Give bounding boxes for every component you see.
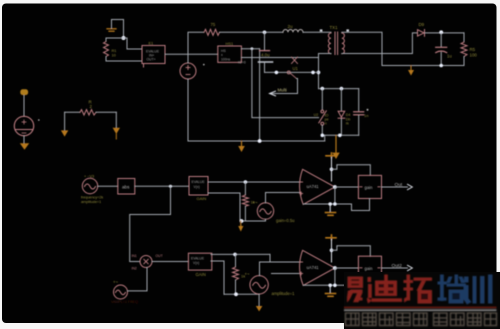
svg-text:D9: D9: [419, 22, 425, 27]
ground G3 (snubber): [335, 135, 337, 152]
svg-text:amplitude=1: amplitude=1: [272, 291, 296, 296]
multiplier M1: [140, 256, 152, 268]
wire upper loop to box4: [332, 246, 371, 256]
node J11: [258, 139, 262, 143]
transformer phase dot right: [346, 29, 349, 31]
box GAIN2: [358, 256, 381, 279]
VEE bar OP1: [329, 204, 331, 212]
svg-text:EVALUE: EVALUE: [191, 256, 205, 260]
label C3: [367, 109, 369, 111]
svg-text:+~: +~: [245, 272, 250, 277]
capacitor C3 (vertical): [358, 89, 360, 112]
wire op2 out to box4: [335, 267, 359, 269]
svg-text:uA741: uA741: [307, 265, 320, 270]
transformer phase dot left: [320, 29, 323, 31]
label R5: [470, 47, 478, 58]
wire E1 out to HS1 box: [165, 53, 218, 55]
node J6: [439, 64, 443, 68]
voltage source V1 (circle with +/-): [180, 63, 196, 79]
wire HS1 out pin2 to primary bottom node: [241, 57, 318, 59]
svg-text:Multi: Multi: [278, 88, 287, 93]
ground G8 (row1): [240, 221, 242, 226]
node J10b: [338, 134, 342, 138]
svg-text:100: 100: [470, 53, 478, 58]
port Multi: [270, 91, 276, 96]
node J7: [275, 71, 279, 75]
E1 box inner text: [146, 49, 160, 61]
switch U1 (tClose): [287, 57, 297, 79]
resistor R1 (vertical zigzag): [104, 42, 109, 57]
wire V6 to multiplier: [128, 268, 148, 291]
wire R1 bottom to E1 in-: [106, 57, 142, 62]
source V3 (sine): [82, 178, 97, 193]
resistor R4 (vertical): [235, 254, 237, 267]
wire secondary top to ground rail: [342, 32, 382, 65]
box ABS1: [118, 179, 135, 195]
wire box3 bottom pin to left loop: [211, 261, 224, 294]
VCC bar OP2: [326, 235, 336, 240]
node J12: [169, 185, 172, 188]
node J9b: [340, 87, 344, 91]
wire feedback row2: [303, 268, 335, 285]
wire rail row1: [240, 220, 266, 222]
wire lower loop box2: [352, 199, 370, 211]
box E3: [189, 177, 208, 196]
source V6 (sine, bottom left): [114, 285, 128, 299]
labels D2: [346, 113, 351, 126]
capacitor C2 branch from top rail: [264, 32, 266, 50]
ground G1 (top left, bar style): [107, 29, 116, 31]
wire V1 top to top rail: [188, 32, 204, 63]
wire ground G1 to node J1: [112, 20, 124, 39]
snubber top rail: [319, 88, 359, 90]
svg-text:n: n: [325, 122, 327, 126]
node J19: [233, 253, 237, 257]
wire control (vertical 1) to snubber switch: [252, 49, 319, 118]
svg-text:100ns: 100ns: [221, 57, 231, 61]
port Out: [408, 184, 413, 189]
capacitor C4 (output, polarized): [440, 33, 442, 47]
node J8: [311, 71, 315, 75]
watermark char yi (red): [347, 277, 363, 303]
svg-text:rk: rk: [346, 122, 349, 126]
svg-text:abs: abs: [122, 184, 130, 189]
tiny node mark right of V1: [203, 64, 205, 66]
VEE bar OP2: [329, 285, 331, 292]
svg-text:Out: Out: [395, 182, 403, 188]
watermark gray underline: [344, 310, 497, 312]
wire E3 top out to minus line: [208, 181, 301, 183]
svg-text:V(x): V(x): [194, 185, 200, 189]
wire primary bottom lead: [319, 53, 332, 55]
labels V3 params: [81, 196, 103, 205]
wire M1 out to box3: [152, 261, 188, 263]
node J23b: [333, 284, 337, 288]
wire VCC to V2: [23, 96, 25, 117]
ground G2 (output, arrow): [410, 66, 412, 71]
E-source box E1: [142, 46, 165, 64]
svg-text:R5: R5: [470, 47, 476, 52]
switch U2 (vertical): [321, 89, 323, 110]
resistor R75 (horizontal zigzag): [204, 29, 220, 35]
svg-text:uA741: uA741: [307, 184, 320, 189]
node J10a: [321, 134, 325, 138]
svg-text:HS1: HS1: [226, 41, 235, 46]
HS1 inner text: [221, 49, 231, 61]
rail row2: [224, 293, 259, 295]
node J1 junction: [122, 36, 126, 40]
watermark char xun (blue): [464, 275, 493, 305]
node J13: [244, 180, 248, 184]
wire jog to op2 minus line: [260, 254, 271, 262]
diode D1: [418, 30, 425, 37]
ground G9: [256, 306, 263, 311]
svg-text:+~: +~: [113, 280, 118, 285]
op-amp OP2 (uA741): [300, 250, 335, 285]
svg-text:GAIN: GAIN: [196, 272, 206, 277]
wire primary bottom vertical: [318, 54, 320, 89]
wire D1 to output: [425, 32, 464, 34]
wire V2 bottom: [23, 136, 25, 144]
wire plus line row2: [272, 273, 302, 275]
label R2: [89, 100, 93, 109]
ground G5: [20, 143, 29, 150]
watermark line2 : shepin-he-tianxian-sheji-zhuanjia (fake glyph blocks): [346, 313, 497, 326]
node J9a: [321, 87, 325, 91]
box HS1: [218, 46, 242, 62]
wire secondary bottom to diode: [342, 33, 417, 54]
watermark char di (red): [367, 275, 402, 304]
svg-text:D4: D4: [346, 113, 351, 117]
node J21: [330, 249, 334, 253]
svg-text:Out2: Out2: [392, 263, 403, 269]
svg-text:1n: 1n: [364, 113, 368, 118]
node J5: [439, 30, 443, 34]
snubber bottom rail: [322, 134, 358, 136]
wire branch down to multiplier: [130, 186, 171, 261]
svg-text:V(x): V(x): [193, 261, 199, 265]
wire box2 out: [382, 186, 408, 188]
wire switch to Multi port: [270, 79, 298, 94]
svg-text:EVALUE: EVALUE: [192, 180, 206, 184]
port Out2: [408, 265, 413, 270]
svg-text:VAMPL=1 FREQ: VAMPL=1 FREQ: [111, 300, 138, 304]
svg-text:OUT+: OUT+: [147, 57, 156, 61]
node J18b: [333, 202, 337, 206]
node J2: [251, 47, 254, 50]
node J3: [317, 71, 321, 75]
svg-text:amplitude=1: amplitude=1: [81, 200, 101, 204]
wire VCC stub: [331, 158, 333, 182]
svg-text:U1: U1: [293, 66, 299, 71]
wire box3 top out: [211, 253, 270, 255]
wire lower loop box4: [352, 279, 370, 292]
node J16: [330, 168, 334, 172]
wire VCC stub OP2: [331, 240, 333, 263]
wire rail jog: [324, 135, 326, 141]
VCC bar OP1: [326, 153, 336, 158]
wire V3 to abs: [98, 185, 118, 187]
wire main bottom rail: [188, 79, 325, 141]
ground G7 (right): [115, 112, 117, 128]
ground G6 (left): [64, 112, 66, 130]
svg-text:frequency=2k: frequency=2k: [81, 196, 103, 200]
svg-text:4.0u: 4.0u: [261, 53, 270, 58]
svg-text:1u: 1u: [447, 54, 452, 59]
wire J1 to resistor R1 top: [106, 37, 124, 39]
node J20: [234, 292, 238, 296]
watermark char tuo (red): [404, 275, 433, 304]
label R1 value: [112, 48, 117, 57]
labels U2: [314, 113, 329, 126]
source V4 (sine with marks): [257, 203, 273, 219]
svg-text:IN2: IN2: [132, 266, 137, 270]
source V5 (sine): [250, 276, 268, 294]
plus line: [266, 192, 302, 194]
svg-text:gain=0.5u: gain=0.5u: [276, 218, 295, 223]
wire box4 out: [382, 267, 408, 269]
wire return (vertical 2) HS1 to bottom rail: [259, 49, 261, 141]
watermark red underline: [344, 307, 497, 309]
wire E3 bottom pin down: [208, 193, 240, 221]
svg-text:gain: gain: [365, 266, 374, 271]
resistor R5 (output, vertical): [463, 33, 465, 42]
diode D2 (vertical): [340, 89, 342, 111]
svg-text:IC=0: IC=0: [238, 61, 246, 65]
inductor L1: [283, 30, 303, 33]
svg-text:IN1: IN1: [132, 254, 137, 258]
box E2: [188, 253, 211, 270]
node J22 (output tip): [333, 266, 337, 270]
svg-text:GAIN: GAIN: [197, 196, 207, 201]
ground G4 (main rail): [241, 141, 243, 146]
svg-text:U2: U2: [314, 113, 319, 117]
svg-text:+ ~V3: + ~V3: [84, 175, 94, 179]
wire output ground rail: [382, 65, 464, 67]
svg-text:+~: +~: [253, 200, 258, 205]
watermark backdrop block: [344, 272, 500, 329]
svg-text:TX1: TX1: [330, 25, 339, 30]
wire L1 to transformer: [303, 31, 331, 33]
node J23a: [328, 284, 332, 288]
svg-text:75: 75: [211, 22, 216, 27]
watermark char pei (blue): [438, 275, 467, 304]
VCC bubble: [20, 89, 28, 95]
resistor R3 (feedback, vertical): [244, 182, 246, 195]
svg-text:gain: gain: [365, 185, 374, 190]
wire V5 bottom to ground: [258, 294, 260, 306]
wire op1 out to box2: [335, 186, 359, 188]
svg-text:OUT: OUT: [156, 254, 163, 258]
box GAIN1: [358, 175, 381, 198]
wire feedback row1: [303, 187, 335, 204]
node J17 (output tip): [333, 185, 337, 189]
wire J1 to E1 in+: [124, 38, 143, 49]
node J14: [240, 219, 244, 223]
source V2 (circle): [14, 116, 33, 135]
resistor R2 between grounds: [65, 111, 80, 113]
svg-text:E1: E1: [149, 41, 155, 46]
wire abs out: [135, 185, 189, 187]
tiny node mark right of V2: [38, 119, 40, 121]
wire R75 to L1: [220, 31, 284, 33]
transformer TX1: [328, 32, 344, 55]
multiplier pin labels: [132, 254, 163, 270]
node J4: [263, 31, 267, 35]
op-amp OP1 (uA741): [300, 169, 335, 204]
wire HS1 out pin1: [241, 48, 259, 50]
svg-text:2u: 2u: [288, 24, 294, 29]
E1 ref pin mark: [143, 65, 145, 68]
wire upper loop to box2: [332, 165, 371, 176]
node J18a: [328, 202, 332, 206]
wire switch rail: [265, 71, 319, 73]
